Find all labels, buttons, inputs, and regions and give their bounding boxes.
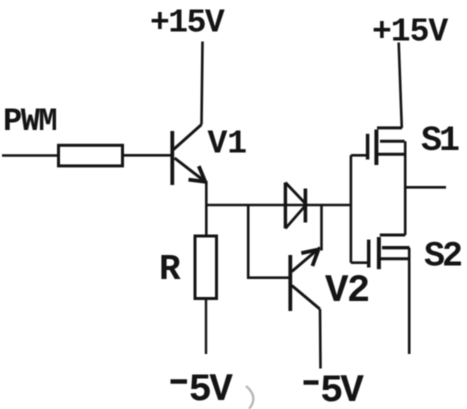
wire resistor to V1 base [123,154,172,157]
svg-text:S1: S1 [421,121,459,161]
power -5V (left) [171,368,234,409]
wire S2 source down [408,248,411,354]
svg-text:+15V: +15V [372,14,448,51]
mosfet S2 [351,235,410,269]
svg-text:+15V: +15V [150,5,225,42]
svg-text:V1: V1 [208,126,248,163]
svg-text:5V: 5V [320,369,364,409]
wire output stub [405,186,446,189]
wire gate bus (node A to S1/S2 gates) [350,155,353,262]
power -5V (right) [304,369,365,409]
wire V2 collector to -5V [319,309,322,369]
resistor (input base resistor, unlabeled) [59,145,123,166]
wire R to -5V [205,299,207,355]
wire S1 source to S2 drain [404,141,407,235]
svg-text:R: R [159,249,181,290]
svg-text:PWM: PWM [3,103,56,140]
wire V1 collector to +15V [202,42,203,125]
scan artifact arc [246,386,253,409]
resistor R [195,236,217,299]
diode VD [285,183,306,229]
wire node A to V2 base [248,205,289,278]
wire diode node down to V2 emitter [320,205,323,251]
svg-text:S2: S2 [424,237,461,277]
svg-text:5V: 5V [189,368,234,409]
transistor V2 [290,248,320,312]
wire PWM input [2,154,58,157]
wire V1 emitter down to node A [205,181,208,236]
wire +15V to S1 drain [399,43,402,128]
svg-text:V2: V2 [325,269,369,313]
mosfet S1 [351,128,406,165]
wire node A horizontal bus [205,204,351,207]
transistor V1 [172,125,206,186]
